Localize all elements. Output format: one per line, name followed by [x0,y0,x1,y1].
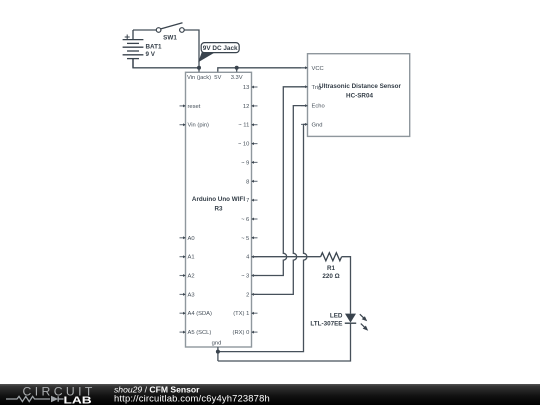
svg-text:R3: R3 [214,205,223,212]
svg-text:Arduino Uno WIFI: Arduino Uno WIFI [192,196,245,203]
pin stubs right (13..0) [252,86,258,334]
svg-text:VCC: VCC [312,66,324,72]
svg-text:~ 6: ~ 6 [241,217,249,223]
wire gnd node down [217,352,219,361]
svg-text:SW1: SW1 [163,34,177,41]
wire 5V/3.3V to sensor VCC [218,68,308,73]
LED light arrows [360,314,368,331]
wire 3.3V stub to VCC net [236,68,238,73]
svg-text:Vin (jack): Vin (jack) [187,75,211,81]
svg-text:220 Ω: 220 Ω [322,273,339,280]
svg-text:R1: R1 [327,265,336,272]
svg-text:(RX) 0: (RX) 0 [233,330,250,336]
svg-text:~ 11: ~ 11 [238,123,249,129]
9V DC Jack annotation bubble [201,43,239,53]
pin stub gnd bottom [217,347,219,352]
svg-text:A0: A0 [188,236,195,242]
Arduino Uno WiFi R3 box U1 [186,72,252,347]
svg-text:BAT1: BAT1 [146,44,162,51]
svg-text:Ultrasonic Distance Sensor: Ultrasonic Distance Sensor [319,83,401,90]
svg-text:8: 8 [246,179,249,185]
switch SW1 [156,23,184,33]
svg-text:Vin (pin): Vin (pin) [188,123,210,129]
wire Trig to pin ~3 [252,87,308,276]
svg-text:~ 3: ~ 3 [241,274,249,280]
svg-text:~ 9: ~ 9 [241,160,249,166]
svg-text:~ 5: ~ 5 [241,236,249,242]
node 3.3V junction [235,66,239,70]
svg-text:A4 (SDA): A4 (SDA) [188,311,213,317]
wire resistor to LED [342,257,351,314]
svg-text:HC-SR04: HC-SR04 [346,92,373,99]
svg-text:(TX) 1: (TX) 1 [233,311,249,317]
Ultrasonic sensor box U2 [308,54,410,137]
svg-text:9 V: 9 V [146,51,156,58]
wire pin 4 to resistor with hops [252,256,321,258]
svg-text:13: 13 [243,85,249,91]
wire LED cathode down to gnd return [218,323,351,361]
wire Vin(jack) stub [198,68,200,73]
svg-text:LED: LED [330,313,343,320]
svg-text:2: 2 [246,292,249,298]
LED D1 LTL-307EE [345,314,356,323]
svg-text:5V: 5V [214,75,221,81]
svg-text:~ 10: ~ 10 [238,142,249,148]
svg-text:http://circuitlab.com/c6y4yh72: http://circuitlab.com/c6y4yh723878h [114,393,270,404]
svg-text:reset: reset [188,104,201,110]
CircuitLab logo squiggle [6,396,64,401]
wire battery bottom to Vin jack node [133,59,199,68]
svg-text:LAB: LAB [64,394,92,405]
wire switch to corner and down to Vin jack node [184,30,199,68]
wire battery top to switch [133,29,156,31]
node gnd junction [216,350,220,354]
wire Echo to pin 2 [252,106,308,295]
svg-text:A1: A1 [188,255,195,261]
pin stubs left (reset, Vin pin, A0-A5) [180,104,186,333]
svg-text:A5 (SCL): A5 (SCL) [188,330,212,336]
node Vin jack junction [197,66,201,70]
svg-text:9V DC Jack: 9V DC Jack [203,45,238,52]
svg-text:A2: A2 [188,274,195,280]
sensor pin stubs [301,66,308,126]
svg-text:3.3V: 3.3V [231,75,243,81]
svg-text:Echo: Echo [312,104,325,110]
battery BAT1 [123,30,144,68]
svg-text:12: 12 [243,104,249,110]
svg-text:gnd: gnd [212,340,222,346]
wire sensor Gnd to gnd node [218,124,308,351]
svg-text:A3: A3 [188,292,195,298]
svg-text:7: 7 [246,198,249,204]
resistor R1 zigzag [321,253,342,261]
svg-text:LTL-307EE: LTL-307EE [310,321,342,328]
svg-text:Gnd: Gnd [312,122,323,128]
9V DC Jack annotation tail [198,52,216,63]
